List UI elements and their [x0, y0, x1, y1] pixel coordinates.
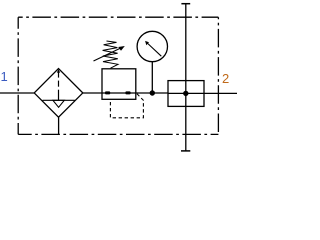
- junction gauge/main line: [150, 90, 155, 95]
- wire: filter to regulator: [83, 92, 102, 94]
- bottom line cap: [181, 150, 190, 152]
- wire: regulator to branch block: [136, 92, 168, 94]
- drain line: [58, 117, 60, 134]
- branch block B1: [168, 81, 204, 107]
- valve seat mark right: [125, 91, 130, 94]
- pressure gauge G1: [137, 31, 167, 61]
- separator triangle: [53, 100, 64, 107]
- wire: inlet line port 1 to filter: [0, 92, 34, 94]
- adjustment arrow: [94, 48, 121, 61]
- junction in branch block: [183, 91, 188, 96]
- enclosure (dash-dot assembly frame): [18, 17, 218, 134]
- wire: line through branch block: [168, 92, 204, 94]
- water separator baffle line: [43, 99, 75, 101]
- wire: branch vertical line: [185, 4, 187, 151]
- top line cap: [181, 3, 190, 5]
- wire: outlet line to port 2: [204, 92, 237, 94]
- valve seat mark left: [105, 91, 110, 94]
- regulator R1 (body): [102, 69, 136, 100]
- pilot line (dashed feedback loop): [110, 94, 143, 118]
- wire: gauge stem: [151, 62, 153, 93]
- wire: flow path through regulator: [102, 92, 136, 94]
- filter F1 (diamond body): [34, 69, 83, 118]
- gauge needle: [148, 43, 162, 56]
- filter element (dashed vertical line with arrow): [58, 72, 60, 101]
- svg-text:1: 1: [1, 69, 8, 84]
- svg-text:2: 2: [222, 71, 229, 86]
- adjustment spring: [103, 41, 118, 68]
